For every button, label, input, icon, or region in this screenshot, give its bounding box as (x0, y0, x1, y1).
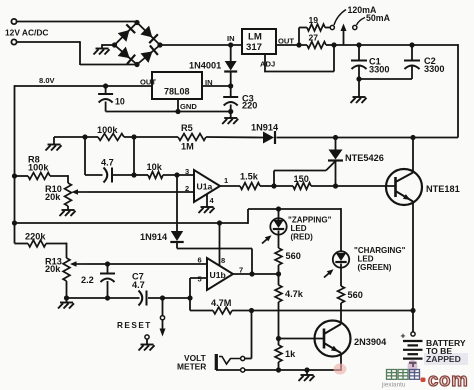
wire 8V rail (15, 85, 153, 87)
svg-text:220k: 220k (25, 232, 46, 242)
wire R5 to 1N914 (206, 136, 263, 139)
callout line 120mA (334, 10, 346, 26)
node rail R8 (12, 173, 17, 178)
capacitor C2 3300 (411, 45, 413, 60)
svg-text:317: 317 (246, 42, 262, 53)
led CHARGING LED GREEN circle (333, 251, 349, 267)
terminal jack sleeve ring (241, 368, 245, 372)
wiper R13 arrow (72, 263, 86, 265)
resistor R 1k (275, 345, 282, 362)
wire RESET arrow (162, 320, 164, 330)
transistor Q2 2N3904 circle (315, 321, 351, 357)
wire to R5 (124, 136, 178, 138)
regulator U3 78L08 box (152, 72, 202, 99)
svg-text:3: 3 (185, 167, 189, 176)
wire C7 right (148, 297, 190, 299)
svg-text:IN: IN (227, 34, 235, 43)
node C1 top (356, 42, 361, 47)
wire 19 to contact (325, 27, 330, 29)
node 27 right / ADJ (331, 42, 336, 47)
node bridge bottom (134, 62, 139, 67)
volt meter jack body (215, 354, 218, 370)
node R13 bottom (64, 295, 69, 300)
svg-text:(RED): (RED) (291, 233, 314, 242)
thyristor NTE5426 (335, 138, 337, 150)
svg-text:LM: LM (248, 32, 262, 43)
node bridge left (112, 42, 117, 47)
base bar 2N3904 (323, 329, 326, 349)
svg-text:U1a: U1a (197, 182, 213, 192)
svg-text:IN: IN (205, 78, 213, 87)
wire U1a pin4 gnd (206, 195, 208, 207)
wire R13 bottom (66, 281, 68, 298)
wire LM317 OUT (276, 44, 307, 46)
svg-text:10: 10 (115, 97, 125, 107)
wire left rail (14, 85, 16, 243)
ground C1 (351, 97, 367, 103)
switch S1 contact 120mA (330, 25, 334, 29)
bridge rectifier diode D-topright (137, 23, 160, 46)
node SCR anode (333, 135, 338, 140)
ground R13 (66, 298, 68, 302)
node 1N4001 top (228, 42, 233, 47)
wire 78L08 GND pin (177, 99, 179, 112)
wire charging LED drop (340, 208, 342, 251)
svg-text:3300: 3300 (369, 65, 389, 75)
wire 100k-left down (84, 137, 86, 175)
node U1a pin3 (174, 172, 179, 177)
bridge rectifier diode D-topleft (115, 23, 138, 46)
resistor R 220k (28, 240, 46, 247)
wire 150 to base node (311, 185, 336, 187)
node 78L08 GND (175, 109, 180, 114)
capacitor C 4.7 (104, 168, 108, 183)
node 2.2 top (105, 261, 110, 266)
wire C7 line (67, 297, 140, 299)
wire ground bus (106, 111, 231, 113)
svg-text:4.7: 4.7 (101, 158, 114, 168)
ground U1a (199, 207, 215, 213)
wire 100k-right down (133, 137, 135, 175)
collector 2N3904 (324, 324, 341, 334)
wiper R10 arrow (74, 191, 89, 193)
capacitor C1 3300 (358, 45, 360, 60)
wire 1.5k to node (260, 185, 274, 187)
ground bottom (306, 370, 308, 375)
terminal RESET post (145, 335, 149, 339)
wire base (279, 338, 325, 340)
wire emitter down (340, 353, 342, 371)
potentiometer R13 20k (63, 258, 70, 281)
wire pin3 node down (176, 175, 178, 231)
svg-text:220: 220 (242, 101, 257, 111)
svg-text:560: 560 (348, 290, 363, 300)
arrow zapping indicator (262, 237, 270, 244)
svg-text:150: 150 (294, 174, 309, 184)
svg-text:NTE181: NTE181 (426, 184, 460, 194)
wire R8 to R10 (50, 175, 68, 177)
watermark jiexiantu chars (387, 370, 420, 380)
capacitor C 2.2 (107, 264, 109, 273)
svg-text:12V AC/DC: 12V AC/DC (5, 28, 48, 38)
svg-text:R5: R5 (181, 123, 193, 133)
node rail 8V-LED line (12, 220, 17, 225)
wire ADJ path (333, 45, 335, 72)
resistor R5 1M (178, 134, 206, 141)
svg-text:NTE5426: NTE5426 (345, 153, 384, 163)
wire battery sense line (252, 310, 414, 312)
node collector top (410, 135, 415, 140)
wire battery stub (412, 363, 414, 367)
svg-text:6: 6 (198, 256, 202, 265)
node 1k bottom (276, 367, 281, 372)
wire pin5 corner down (189, 298, 191, 311)
wire output rail (334, 44, 458, 46)
resistor R 100k top (98, 134, 124, 141)
capacitor C3 220 (230, 86, 232, 97)
svg-text:1k: 1k (285, 349, 296, 359)
svg-text:2.2: 2.2 (81, 275, 94, 285)
watermark smudge purple (408, 360, 418, 373)
svg-text:1N4001: 1N4001 (189, 61, 221, 71)
resistor R 27 (307, 42, 326, 49)
svg-text:1N914: 1N914 (140, 232, 168, 242)
arrow charging indicator (324, 271, 332, 278)
wire AC bottom (17, 41, 81, 43)
watermark tint over ZAPPED (424, 353, 468, 365)
node C2 top (409, 42, 414, 47)
op-amp U1b (207, 258, 233, 290)
wire DC+ to LM317 IN (160, 44, 242, 46)
switch S1 pole arrow (343, 28, 345, 45)
node gate junction (271, 183, 276, 188)
svg-text:2N3904: 2N3904 (354, 337, 387, 347)
svg-text:METER: METER (177, 362, 206, 372)
switch S1 contact 50mA (353, 25, 357, 29)
svg-text:20k: 20k (45, 264, 61, 274)
svg-text:560: 560 (286, 251, 301, 261)
capacitor C 10uF (105, 86, 107, 94)
wire R13 wiper to pin6 (86, 263, 207, 265)
svg-text:ADJ: ADJ (260, 60, 275, 69)
resistor R 560 zapping (275, 248, 282, 265)
svg-text:100k: 100k (28, 163, 49, 173)
svg-text:4.7: 4.7 (132, 280, 145, 290)
wire 27 to node (326, 44, 334, 46)
resistor R8 100k (28, 173, 50, 180)
wire C2 bottom to C1 (359, 78, 412, 80)
wire U1a out (220, 185, 240, 187)
svg-text:GND: GND (180, 102, 197, 111)
wire rail to R8 (15, 175, 29, 177)
wire 1N914 to right (277, 137, 414, 139)
ground RESET (146, 339, 148, 344)
node 4.7k top (276, 271, 281, 276)
emitter NTE181 (396, 191, 414, 202)
resistor R 4.7k (275, 285, 282, 302)
wire voltmeter drop (251, 311, 253, 359)
regulator U2 LM317 box (242, 29, 276, 54)
terminal J1 12V AC/DC top (11, 19, 16, 24)
svg-text:8.0V: 8.0V (39, 76, 56, 85)
ground R10 (67, 206, 69, 210)
ground C3 (230, 112, 232, 118)
svg-text:8: 8 (221, 256, 225, 265)
wire AC top to bridge (17, 21, 138, 23)
gate NTE5426 (273, 171, 275, 187)
svg-text:OUT: OUT (140, 77, 156, 86)
wire right rail down (457, 44, 459, 137)
node voltmeter tap (249, 308, 254, 313)
node 2.2 bottom (105, 295, 110, 300)
resistor R 1.5k (240, 183, 260, 190)
diode D2 1N914 top (263, 132, 274, 144)
wire C1 gnd (358, 79, 360, 97)
svg-text:4.7M: 4.7M (211, 298, 232, 308)
wire 78L08 IN (202, 85, 231, 87)
terminal jack tip ring (241, 356, 245, 360)
svg-text:78L08: 78L08 (164, 87, 190, 97)
svg-text:com: com (428, 369, 468, 390)
node bridge top (134, 20, 139, 25)
transistor Q1 NTE181 circle (386, 169, 422, 205)
wire feedback (177, 248, 252, 250)
node 78L08 IN (228, 83, 233, 88)
node pin5 tap (187, 295, 192, 300)
ground bridge (94, 49, 110, 55)
svg-text:4.7k: 4.7k (285, 289, 304, 299)
node bridge right (157, 42, 162, 47)
diode D3 1N914 feedback (171, 231, 183, 241)
node gnd bottom (304, 367, 309, 372)
svg-text:50mA: 50mA (366, 13, 391, 23)
node C1 bottom (356, 76, 361, 81)
svg-text:(GREEN): (GREEN) (358, 263, 392, 272)
node 100k right (131, 134, 136, 139)
svg-text:100k: 100k (97, 125, 118, 135)
wire 220k to R13 (66, 243, 68, 258)
svg-text:3300: 3300 (424, 64, 444, 74)
resistor R 10k (148, 172, 163, 179)
node U1b pin8 tap (217, 220, 222, 225)
svg-text:+: + (401, 331, 406, 341)
wire bridge left to ground (102, 44, 115, 46)
resistor R 4.7M (213, 307, 232, 314)
resistor R 150 (293, 183, 311, 190)
wire U1b pin8 (219, 223, 221, 266)
wire bottom line (216, 369, 341, 371)
capacitor C7 4.7 (139, 291, 143, 306)
node LM317 OUT (296, 42, 301, 47)
watermark smudge pink (334, 364, 347, 375)
terminal RESET probe ring (160, 316, 164, 320)
svg-text:10k: 10k (147, 162, 163, 172)
svg-text:1.5k: 1.5k (240, 172, 259, 182)
bridge rectifier diode D-bottomright (137, 45, 160, 65)
node C3 bottom (228, 109, 233, 114)
watermark red dot (421, 378, 426, 383)
node zapping LED top (276, 206, 281, 211)
wire 8V LED line (15, 222, 249, 224)
led CHARGING triangle (336, 253, 346, 261)
wire base NTE181 (336, 185, 396, 187)
diode D1 1N4001 (230, 45, 232, 61)
svg-text:1N914: 1N914 (251, 123, 279, 133)
emitter 2N3904 (324, 343, 341, 353)
svg-text:jiexiantu: jiexiantu (381, 382, 406, 389)
wire RESET stub (162, 298, 164, 316)
collector NTE181 (396, 173, 414, 183)
callout line 50mA (357, 18, 366, 26)
resistor R 560 charging (338, 286, 345, 303)
svg-text:U1b: U1b (210, 270, 226, 280)
svg-text:5: 5 (198, 275, 202, 284)
svg-text:1M: 1M (181, 142, 194, 152)
led ZAPPING triangle (278, 209, 280, 220)
svg-text:1: 1 (224, 176, 228, 185)
op-amp U1a (194, 170, 220, 202)
terminal battery plus (411, 332, 415, 336)
node 100k left (82, 134, 87, 139)
led ZAPPING LED RED circle (270, 218, 286, 234)
wire pin5 up (189, 278, 191, 298)
resistor R 19 (307, 24, 325, 31)
node RESET tap (160, 295, 165, 300)
wire U1b out (233, 273, 279, 275)
terminal J1 12V AC/DC bottom (11, 39, 16, 44)
node 2N3904 base (276, 336, 281, 341)
node battery plus rail (410, 308, 415, 313)
wire R10 wiper to pin2 (88, 191, 194, 193)
svg-text:2: 2 (185, 184, 189, 193)
bridge rectifier diode D-bottomleft (115, 45, 138, 65)
wire emitter rail down (412, 202, 414, 332)
ground 100k line (46, 145, 62, 151)
potentiometer R10 20k (65, 183, 72, 206)
svg-text:RESET: RESET (117, 321, 152, 330)
jack tip spring (219, 357, 241, 365)
svg-text:19: 19 (309, 15, 319, 25)
svg-text:20k: 20k (45, 192, 61, 202)
node NTE5426 cathode (333, 183, 338, 188)
node 4.7/10k junction (131, 172, 136, 177)
svg-text:27: 27 (309, 33, 319, 43)
base bar NTE181 (394, 177, 397, 197)
node cap10 top (103, 83, 108, 88)
battery B1 plates (403, 340, 423, 342)
wire 19 branch up (298, 28, 300, 46)
node U1b out (249, 271, 254, 276)
wire gnd to 100k (54, 136, 98, 138)
